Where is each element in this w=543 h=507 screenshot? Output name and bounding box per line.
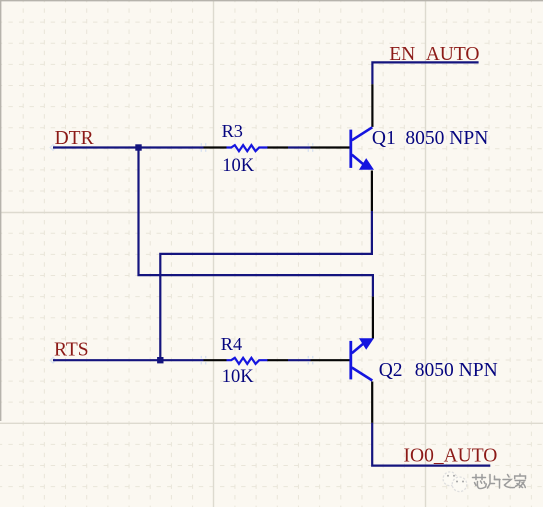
- svg-text:Q1: Q1: [372, 128, 396, 149]
- svg-text:8050 NPN: 8050 NPN: [415, 360, 498, 381]
- svg-text:R4: R4: [221, 334, 242, 354]
- svg-text:IO0_AUTO: IO0_AUTO: [404, 445, 498, 466]
- svg-text:8050 NPN: 8050 NPN: [405, 128, 488, 149]
- svg-text:EN: EN: [389, 44, 415, 65]
- svg-text:R3: R3: [222, 121, 243, 141]
- svg-text:RTS: RTS: [54, 340, 89, 361]
- svg-text:DTR: DTR: [55, 128, 94, 149]
- svg-text:10K: 10K: [222, 367, 255, 387]
- svg-text:AUTO: AUTO: [426, 44, 480, 65]
- svg-text:10K: 10K: [222, 156, 255, 176]
- svg-text:Q2: Q2: [379, 360, 403, 381]
